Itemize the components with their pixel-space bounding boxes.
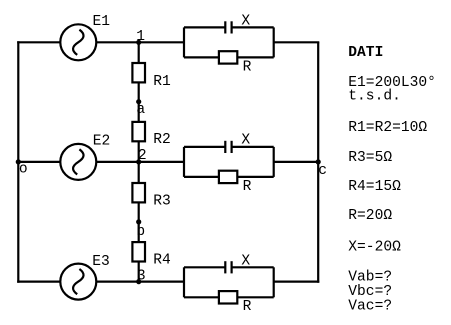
svg-text:R4: R4	[153, 252, 171, 268]
resistor R1	[132, 63, 171, 90]
svg-text:1: 1	[136, 29, 145, 45]
svg-text:R=20Ω: R=20Ω	[348, 208, 392, 224]
wire row3 left segment	[17, 281, 61, 283]
parallel block 2: capacitor X and resistor R	[184, 133, 274, 195]
svg-text:o: o	[19, 162, 28, 178]
wire row1 source to node 1	[96, 41, 139, 43]
wire row1 block 1 to right bus	[274, 41, 320, 43]
node o	[16, 159, 28, 177]
wire row2 source to node 2	[96, 161, 139, 163]
wire right vertical bus	[317, 42, 319, 282]
source E2	[60, 134, 110, 180]
svg-text:Vac=?: Vac=?	[348, 299, 392, 315]
svg-text:2: 2	[138, 148, 147, 164]
wire row3 source to node 3	[96, 281, 139, 283]
svg-text:X=-20Ω: X=-20Ω	[348, 239, 401, 255]
svg-text:R1: R1	[153, 74, 171, 90]
svg-text:R3: R3	[153, 193, 171, 209]
wire row1 left segment	[17, 41, 61, 43]
svg-text:c: c	[318, 163, 327, 179]
svg-text:E1: E1	[93, 14, 111, 30]
parallel block 1: capacitor X and resistor R	[184, 14, 274, 76]
source E1	[60, 14, 110, 60]
wire row2 node 2 to block 2	[139, 161, 184, 163]
node 2	[136, 148, 146, 164]
svg-text:DATI: DATI	[348, 45, 383, 61]
wire row2 node o to source E2	[18, 161, 61, 163]
node 1	[136, 29, 145, 45]
wire row3 node 3 to block 3	[139, 281, 184, 283]
svg-text:R2: R2	[153, 132, 171, 148]
resistor R4	[132, 242, 171, 268]
svg-text:3: 3	[137, 269, 146, 285]
svg-text:R4=15Ω: R4=15Ω	[348, 179, 401, 195]
svg-text:X: X	[241, 14, 250, 30]
svg-text:R: R	[243, 179, 252, 195]
node 3	[136, 269, 146, 285]
svg-text:E2: E2	[93, 134, 111, 150]
wire row2 block 2 to node c	[274, 161, 319, 163]
node b	[136, 219, 145, 240]
wire row1 node 1 to block 1	[139, 41, 184, 43]
svg-text:X: X	[241, 253, 250, 269]
svg-text:R: R	[243, 299, 252, 315]
svg-text:R1=R2=10Ω: R1=R2=10Ω	[348, 120, 427, 136]
svg-text:R3=5Ω: R3=5Ω	[348, 150, 392, 166]
svg-text:E3: E3	[92, 254, 110, 270]
wire left vertical bus o	[17, 41, 19, 283]
resistor R2	[132, 122, 170, 148]
svg-text:t.s.d.: t.s.d.	[348, 89, 401, 105]
node a	[136, 99, 145, 118]
wire middle chain vertical	[138, 42, 140, 281]
svg-text:X: X	[241, 133, 250, 149]
svg-text:a: a	[136, 102, 145, 118]
svg-text:R: R	[243, 59, 252, 75]
wire row3 block 3 to right bus	[274, 281, 320, 283]
parallel block 3: capacitor X and resistor R	[184, 253, 274, 314]
svg-text:b: b	[136, 224, 145, 240]
svg-text:Vbc=?: Vbc=?	[348, 284, 392, 300]
resistor R3	[132, 183, 170, 209]
source E3	[60, 254, 110, 300]
svg-text:Vab=?: Vab=?	[348, 269, 392, 285]
node c	[316, 159, 327, 179]
